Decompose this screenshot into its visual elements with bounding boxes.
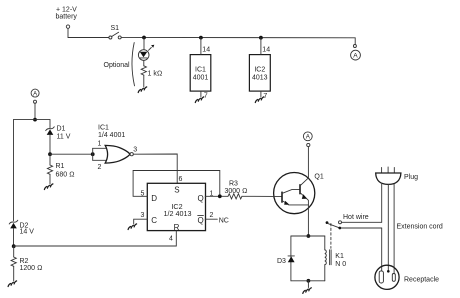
svg-text:IC1: IC1 bbox=[195, 67, 206, 74]
svg-text:6: 6 bbox=[179, 176, 183, 183]
svg-text:A: A bbox=[353, 53, 358, 60]
svg-text:+ 12-V: + 12-V bbox=[56, 7, 77, 14]
svg-text:Optional: Optional bbox=[104, 62, 131, 69]
svg-text:14 V: 14 V bbox=[20, 229, 35, 236]
svg-text:1 kΩ: 1 kΩ bbox=[148, 71, 163, 78]
svg-text:3000 Ω: 3000 Ω bbox=[225, 188, 248, 195]
svg-text:4: 4 bbox=[169, 235, 173, 242]
svg-text:battery: battery bbox=[56, 14, 78, 21]
svg-text:Extension cord: Extension cord bbox=[397, 223, 443, 230]
svg-text:14: 14 bbox=[262, 47, 270, 54]
svg-text:1: 1 bbox=[98, 140, 102, 147]
svg-text:Q1: Q1 bbox=[314, 173, 323, 180]
svg-text:D3: D3 bbox=[277, 258, 286, 265]
svg-text:NC: NC bbox=[219, 217, 229, 224]
svg-text:A: A bbox=[33, 91, 37, 97]
svg-text:R1: R1 bbox=[56, 163, 65, 170]
svg-text:C: C bbox=[151, 216, 157, 225]
svg-text:1200 Ω: 1200 Ω bbox=[20, 265, 43, 272]
svg-text:3: 3 bbox=[133, 146, 137, 153]
svg-text:Q: Q bbox=[198, 216, 204, 225]
svg-text:IC1: IC1 bbox=[98, 125, 109, 132]
svg-text:Q: Q bbox=[198, 194, 204, 203]
svg-text:2: 2 bbox=[98, 164, 102, 171]
svg-text:IC2: IC2 bbox=[254, 67, 265, 74]
svg-text:14: 14 bbox=[202, 47, 210, 54]
svg-text:R2: R2 bbox=[20, 258, 29, 265]
svg-text:1/4 4001: 1/4 4001 bbox=[98, 132, 125, 139]
svg-text:680 Ω: 680 Ω bbox=[56, 172, 75, 179]
svg-text:2: 2 bbox=[210, 212, 214, 219]
svg-text:K1: K1 bbox=[335, 253, 344, 260]
svg-text:Hot wire: Hot wire bbox=[343, 214, 369, 221]
svg-text:S1: S1 bbox=[111, 25, 120, 32]
svg-text:7: 7 bbox=[204, 93, 208, 100]
svg-text:1/2 4013: 1/2 4013 bbox=[164, 209, 192, 218]
svg-text:R3: R3 bbox=[229, 180, 238, 187]
svg-text:Receptacle: Receptacle bbox=[404, 276, 439, 283]
svg-text:Plug: Plug bbox=[404, 174, 418, 181]
svg-text:4001: 4001 bbox=[193, 75, 209, 82]
svg-text:3: 3 bbox=[141, 212, 145, 219]
svg-text:D1: D1 bbox=[57, 126, 66, 133]
svg-text:S: S bbox=[174, 185, 179, 194]
svg-text:D: D bbox=[151, 194, 157, 203]
svg-text:N 0: N 0 bbox=[335, 261, 346, 268]
svg-text:4013: 4013 bbox=[252, 75, 268, 82]
svg-text:11 V: 11 V bbox=[57, 134, 71, 141]
